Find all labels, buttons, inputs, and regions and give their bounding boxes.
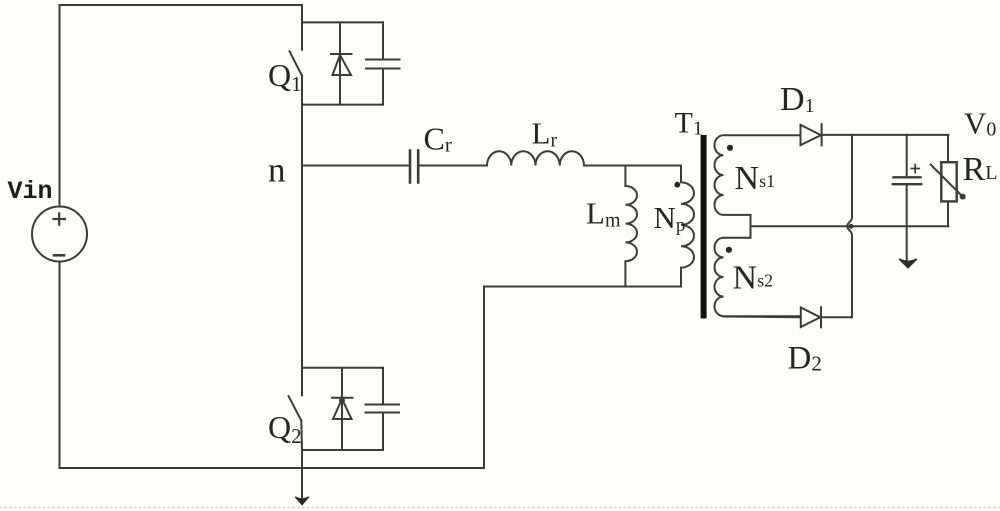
- node n wire: [302, 165, 410, 167]
- wire left rail upper: [59, 5, 61, 207]
- svg-text:Lr: Lr: [532, 116, 558, 152]
- svg-text:V0: V0: [964, 105, 996, 140]
- diode of Q2: [341, 368, 343, 450]
- capacitor of Q2: [382, 368, 384, 450]
- diode D1: [801, 125, 821, 145]
- wire D2 to riser: [821, 316, 852, 318]
- phase dot Ns1: [727, 145, 733, 151]
- Vin plus sign: [54, 213, 66, 224]
- svg-text:D1: D1: [780, 81, 815, 118]
- svg-text:D2: D2: [788, 341, 822, 377]
- ground main: [301, 468, 303, 497]
- svg-text:Np: Np: [654, 200, 686, 236]
- wire bridge leg upper: [301, 5, 303, 50]
- capacitor Cr: [410, 151, 418, 183]
- wire output top rail: [822, 134, 949, 136]
- wire rectifier riser with hop: [847, 135, 852, 317]
- wire Q1 box bottom: [302, 104, 383, 106]
- inductor Lm: [625, 166, 637, 287]
- wire left rail lower: [59, 262, 61, 469]
- source Vin: [32, 207, 87, 262]
- wire center tap return: [751, 225, 949, 227]
- Vin minus sign: [54, 254, 64, 257]
- winding Ns1: [715, 135, 801, 238]
- capacitor of Q1: [382, 22, 384, 104]
- winding Ns2: [715, 238, 801, 316]
- wire Ns2 to D2: [724, 316, 801, 319]
- capacitor plus mark: [911, 165, 919, 173]
- wire primary bottom: [484, 286, 681, 288]
- svg-text:Ns1: Ns1: [735, 160, 776, 197]
- diode of Q1: [339, 22, 341, 104]
- wire bridge leg lower: [300, 421, 303, 468]
- svg-text:Q1: Q1: [268, 57, 302, 96]
- wire Q1 box top: [302, 21, 383, 23]
- wire Lr to Np: [584, 165, 681, 167]
- switch Q2 blade: [289, 396, 302, 421]
- transformer T1 core bar: [701, 135, 707, 319]
- wire Q2 box bottom: [302, 449, 383, 451]
- svg-text:RL: RL: [963, 151, 998, 188]
- ground output: [899, 259, 916, 268]
- wire bottom rail: [60, 467, 485, 469]
- capacitor output: [906, 135, 908, 177]
- switch Q1 blade: [290, 51, 303, 76]
- svg-text:Ns2: Ns2: [733, 260, 774, 297]
- phase dot Np: [674, 182, 680, 188]
- phase dot Ns2: [726, 247, 732, 253]
- svg-text:Lm: Lm: [586, 196, 621, 232]
- svg-text:Vin: Vin: [8, 177, 53, 206]
- wire Cr to Lr: [418, 165, 487, 167]
- svg-text:Cr: Cr: [424, 120, 452, 156]
- winding Np: [681, 166, 694, 287]
- wire top rail: [60, 4, 303, 6]
- svg-text:T1: T1: [675, 107, 703, 140]
- scan artifact bottom dotted line: [0, 507, 1000, 509]
- svg-text:n: n: [268, 151, 286, 190]
- inductor Lr: [487, 151, 584, 165]
- resistor RL: [947, 135, 949, 226]
- wire Q2 box top: [302, 367, 383, 369]
- diode D2: [801, 308, 821, 328]
- wire primary return vertical: [483, 287, 485, 469]
- svg-text:Q2: Q2: [268, 409, 302, 448]
- wire bridge leg middle: [301, 76, 303, 395]
